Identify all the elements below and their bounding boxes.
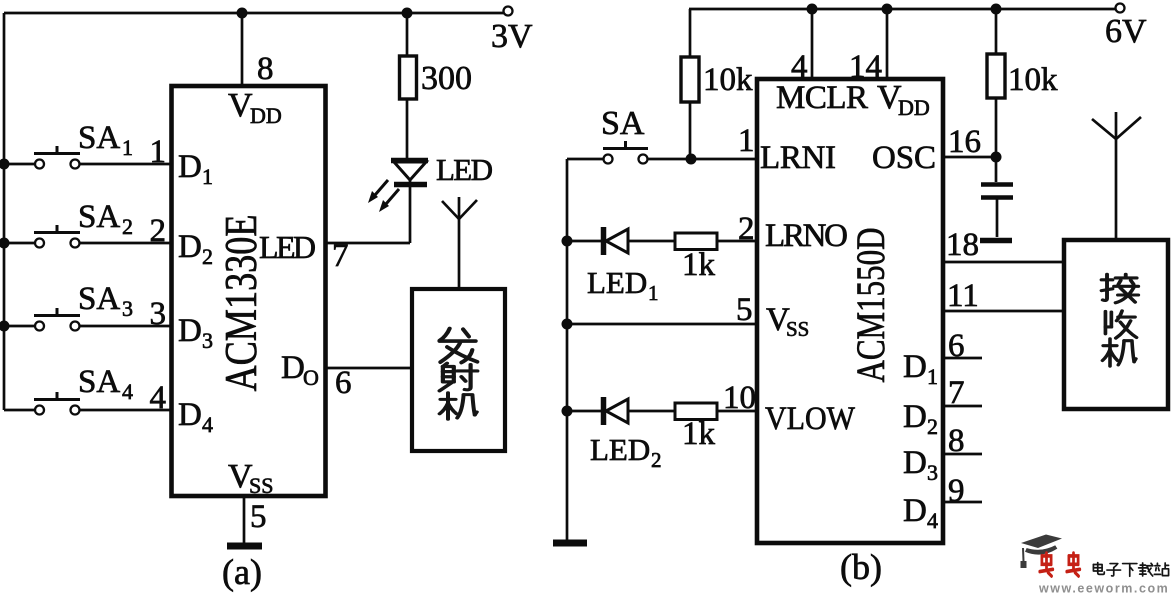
svg-text:www.eeworm.com: www.eeworm.com <box>1038 582 1169 593</box>
svg-text:2: 2 <box>927 414 938 439</box>
svg-text:1: 1 <box>122 135 133 160</box>
svg-text:1: 1 <box>150 134 167 170</box>
svg-text:6V: 6V <box>1105 13 1147 50</box>
svg-text:7: 7 <box>332 238 349 274</box>
svg-text:8: 8 <box>948 423 965 459</box>
svg-text:ACM1330E: ACM1330E <box>216 215 266 392</box>
svg-text:4: 4 <box>202 412 213 437</box>
svg-text:LED: LED <box>436 152 493 187</box>
svg-text:MCLR: MCLR <box>776 80 868 116</box>
svg-text:4: 4 <box>150 380 167 416</box>
svg-text:(a): (a) <box>222 552 262 592</box>
svg-text:D: D <box>178 313 202 349</box>
svg-text:ACM1550D: ACM1550D <box>848 228 893 383</box>
svg-text:D: D <box>903 349 927 385</box>
svg-text:SA: SA <box>78 199 120 235</box>
svg-text:6: 6 <box>948 328 965 364</box>
svg-text:3: 3 <box>202 328 213 353</box>
svg-text:D: D <box>178 229 202 265</box>
svg-text:D: D <box>281 350 305 386</box>
svg-text:9: 9 <box>948 473 965 509</box>
svg-text:D: D <box>903 399 927 435</box>
svg-text:SA: SA <box>601 105 645 142</box>
svg-text:2: 2 <box>651 448 662 472</box>
svg-text:1k: 1k <box>682 416 716 452</box>
svg-text:1: 1 <box>202 164 213 189</box>
svg-text:SS: SS <box>249 473 273 498</box>
svg-text:SA: SA <box>78 364 120 400</box>
svg-text:300: 300 <box>421 60 472 97</box>
svg-text:OSC: OSC <box>872 140 936 176</box>
svg-text:DD: DD <box>250 103 282 128</box>
svg-text:1: 1 <box>927 364 938 389</box>
svg-text:10k: 10k <box>703 62 753 98</box>
svg-text:3: 3 <box>150 296 167 332</box>
svg-text:O: O <box>303 365 319 390</box>
svg-text:3: 3 <box>122 296 133 321</box>
svg-text:LED: LED <box>259 229 316 265</box>
svg-text:LRNI: LRNI <box>760 140 836 176</box>
svg-text:8: 8 <box>257 51 274 87</box>
svg-text:1: 1 <box>648 281 659 305</box>
svg-text:10k: 10k <box>1008 62 1058 98</box>
svg-text:18: 18 <box>946 227 979 263</box>
svg-text:LED: LED <box>587 265 647 300</box>
svg-text:2: 2 <box>150 213 167 249</box>
svg-text:16: 16 <box>948 124 981 160</box>
svg-text:3: 3 <box>927 460 938 485</box>
svg-text:SA: SA <box>78 120 120 156</box>
svg-text:D: D <box>903 445 927 481</box>
svg-text:1: 1 <box>738 123 755 159</box>
svg-text:2: 2 <box>122 214 133 239</box>
svg-text:5: 5 <box>250 499 267 535</box>
svg-text:VLOW: VLOW <box>765 401 856 437</box>
svg-text:2: 2 <box>202 244 213 269</box>
svg-text:5: 5 <box>736 292 753 328</box>
svg-text:3V: 3V <box>491 18 533 55</box>
svg-text:11: 11 <box>947 278 979 314</box>
svg-text:D: D <box>178 149 202 185</box>
svg-text:D: D <box>178 397 202 433</box>
svg-text:DD: DD <box>898 95 930 120</box>
svg-text:D: D <box>903 493 927 529</box>
svg-text:LED: LED <box>590 432 650 467</box>
svg-text:LRNO: LRNO <box>765 218 848 254</box>
svg-text:10: 10 <box>723 380 756 416</box>
svg-text:7: 7 <box>948 375 965 411</box>
svg-text:SS: SS <box>786 317 809 341</box>
svg-text:1k: 1k <box>682 247 716 283</box>
svg-text:(b): (b) <box>840 547 882 587</box>
svg-text:6: 6 <box>335 365 352 401</box>
svg-text:4: 4 <box>927 508 938 533</box>
svg-text:2: 2 <box>738 211 755 247</box>
svg-text:4: 4 <box>122 379 133 404</box>
svg-text:SA: SA <box>78 281 120 317</box>
